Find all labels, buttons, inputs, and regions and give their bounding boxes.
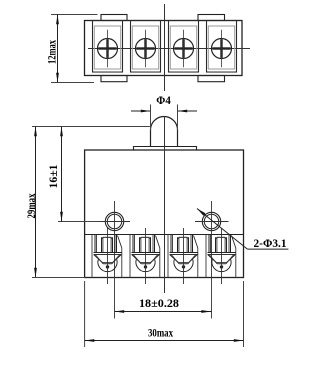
clamp terminal B2 front view <box>130 228 160 284</box>
plunger <box>151 117 178 146</box>
dimension phi4 arrows <box>131 110 151 112</box>
clamp terminal B3 front view <box>168 228 198 284</box>
clamp terminal B4 front view <box>206 228 236 284</box>
top tab right <box>198 15 225 21</box>
dimension 18+-0.28 line with arrows <box>115 311 212 313</box>
clamp terminal B1 front view <box>92 228 122 284</box>
mounting hole H1 <box>105 212 123 230</box>
svg-text:16±1: 16±1 <box>46 165 60 189</box>
dimension 12max line with arrows <box>57 15 59 83</box>
front view body outline <box>85 150 244 278</box>
hole H1 centerlines <box>100 221 130 223</box>
svg-text:29max: 29max <box>24 194 38 219</box>
bottom tab left <box>101 76 127 82</box>
dimension 12max extension lines <box>51 14 98 16</box>
screw S3 <box>174 30 194 67</box>
shelf line <box>85 234 244 236</box>
svg-text:30max: 30max <box>148 326 173 340</box>
terminal block T2 top view <box>131 21 161 73</box>
part centerline front view <box>164 116 166 293</box>
svg-text:Φ4: Φ4 <box>156 93 171 107</box>
svg-text:2-Φ3.1: 2-Φ3.1 <box>254 236 287 250</box>
dimension 30max line with arrows <box>85 340 244 342</box>
dimension 29max line with arrows <box>35 127 37 278</box>
dimension 16+-1 line with arrows <box>61 127 63 222</box>
leader 2-phi3.1 <box>197 209 247 250</box>
hole centerline extension left <box>58 221 100 223</box>
top view body outline <box>85 21 243 76</box>
dimension 16+-1 top extension line <box>32 126 151 128</box>
mounting hole H2 <box>202 212 220 230</box>
bottom tab right <box>198 76 225 82</box>
svg-text:18±0.28: 18±0.28 <box>139 296 179 310</box>
body bottom extension to left <box>32 277 85 279</box>
screw S1 <box>98 30 118 67</box>
dimension phi4 extension lines <box>150 105 152 131</box>
hole H2 centerlines <box>195 221 229 223</box>
top step <box>134 147 197 151</box>
horizontal centerline through screws <box>88 48 250 50</box>
screw S2 <box>136 30 156 67</box>
svg-text:12max: 12max <box>45 40 59 64</box>
terminal block T1 top view <box>93 21 123 73</box>
vertical centerline top view <box>164 4 166 91</box>
screw S4 <box>212 30 232 67</box>
terminal block T4 top view <box>207 21 237 73</box>
dimension 30max extension lines <box>84 281 86 347</box>
terminal block T3 top view <box>169 21 199 73</box>
top tab left <box>101 15 127 21</box>
